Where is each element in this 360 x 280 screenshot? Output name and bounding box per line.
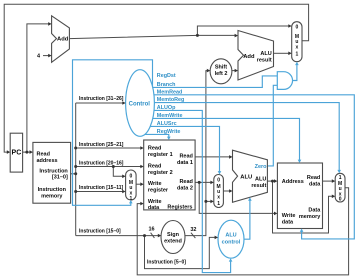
wire MemtoReg control signal	[140, 103, 339, 171]
instruction memory	[33, 142, 71, 203]
svg-text:Add: Add	[243, 54, 255, 60]
wire sign extend branch to ALUSrc mux input 1	[206, 200, 211, 202]
svg-text:Read: Read	[148, 145, 161, 151]
svg-text:x: x	[296, 44, 299, 50]
arrowheads black right	[7, 150, 10, 154]
svg-text:RegDst: RegDst	[157, 73, 176, 79]
junction dots	[25, 151, 28, 154]
svg-text:Data: Data	[308, 207, 321, 213]
svg-text:data: data	[309, 181, 321, 187]
PC	[10, 133, 22, 172]
svg-text:Read: Read	[37, 151, 50, 157]
svg-text:control: control	[222, 240, 241, 246]
svg-text:MemWrite: MemWrite	[157, 113, 183, 119]
wire MemRead control signal	[140, 95, 354, 239]
svg-text:extend: extend	[164, 238, 182, 244]
svg-text:1: 1	[130, 196, 133, 202]
svg-text:1: 1	[296, 52, 299, 58]
adder Add ALU result (branch)	[238, 31, 274, 81]
wire Instruction [25-21]	[76, 147, 141, 149]
wire Sign extend output up to shift left 2	[185, 71, 208, 236]
svg-text:result: result	[251, 183, 266, 189]
svg-text:ALU: ALU	[240, 174, 252, 180]
svg-text:Registers: Registers	[167, 204, 192, 210]
wire RegDst control signal	[73, 60, 153, 206]
wire branch adder result to PCSrc mux input 1	[274, 52, 290, 54]
svg-text:ALUSrc: ALUSrc	[157, 121, 177, 127]
svg-text:RegWrite: RegWrite	[157, 129, 181, 135]
svg-text:Read: Read	[307, 175, 320, 181]
svg-text:ALU: ALU	[225, 233, 236, 239]
registers	[144, 140, 195, 210]
svg-text:Add: Add	[57, 37, 69, 43]
svg-text:register: register	[148, 187, 169, 193]
svg-text:1: 1	[217, 201, 220, 207]
svg-text:Sign: Sign	[167, 232, 180, 238]
slash 32	[191, 233, 196, 238]
svg-text:Zero: Zero	[255, 164, 268, 170]
svg-text:data 2: data 2	[177, 186, 193, 192]
wire Data memory Read data to MemtoReg mux input 1	[323, 180, 333, 182]
data memory	[277, 163, 322, 229]
svg-text:memory: memory	[299, 214, 321, 220]
svg-text:Instruction: Instruction	[39, 168, 68, 174]
svg-text:Instruction [31–26]: Instruction [31–26]	[79, 96, 124, 102]
svg-text:data: data	[282, 220, 294, 226]
wire PC feedback from PCSrc mux around top to PC	[4, 4, 308, 152]
svg-text:register 1: register 1	[148, 152, 173, 158]
mux MemtoReg	[335, 173, 345, 202]
wire Branch control signal	[140, 76, 277, 88]
svg-text:Instruction: Instruction	[38, 187, 67, 193]
wire Read data 2 branch to Data memory Write data	[199, 182, 275, 213]
svg-text:register 2: register 2	[148, 170, 173, 176]
wire AND gate output to PCSrc mux select	[293, 64, 297, 80]
wire Shift left 2 output to branch adder	[232, 70, 236, 72]
svg-text:data 1: data 1	[177, 160, 193, 166]
oval Sign extend	[161, 221, 185, 254]
wire 4 into Add	[43, 55, 49, 57]
wire PC+4 to PCSrc mux input 0	[197, 26, 289, 35]
wire Instruction [31-26] to Control	[76, 102, 123, 104]
wire ALU result to Data memory Address	[267, 180, 274, 182]
instruction field labels	[79, 96, 186, 265]
svg-text:0: 0	[296, 24, 299, 30]
label mux PCSrc	[295, 24, 299, 57]
wire RegWrite control signal	[140, 134, 169, 137]
svg-text:Address: Address	[282, 179, 304, 185]
svg-text:Read: Read	[179, 154, 192, 160]
svg-text:32: 32	[190, 227, 196, 233]
svg-text:[31–0]: [31–0]	[52, 175, 68, 181]
wire ALUSrc mux output to ALU	[223, 190, 230, 192]
ALU U	[233, 150, 268, 202]
wire Instruction [5-0] to ALU control	[145, 236, 216, 269]
svg-text:16: 16	[148, 227, 154, 233]
svg-text:Instruction [5–0]: Instruction [5–0]	[147, 260, 186, 266]
label mux RegDst	[129, 174, 133, 202]
svg-text:Read: Read	[179, 179, 192, 185]
svg-text:address: address	[37, 158, 58, 164]
wire PC to instruction memory read address	[23, 151, 31, 153]
label mux MemtoReg	[338, 175, 342, 203]
wire ALUOp control signal	[140, 110, 231, 272]
mux ALUSrc	[214, 175, 224, 208]
wire Read data 2 to ALUSrc mux input 0	[195, 181, 211, 183]
svg-text:x: x	[217, 194, 220, 200]
svg-text:Instruction [20–16]: Instruction [20–16]	[79, 161, 124, 167]
wire branch to RegDst mux input 0	[113, 167, 123, 177]
slash 16	[151, 233, 155, 238]
mux PCSrc	[292, 22, 302, 62]
svg-text:Shift: Shift	[215, 64, 227, 70]
svg-text:MemtoReg: MemtoReg	[157, 97, 185, 103]
svg-text:MemRead: MemRead	[157, 89, 182, 95]
svg-text:left 2: left 2	[215, 71, 228, 77]
svg-text:ALU: ALU	[260, 51, 271, 57]
wire ALU control output to ALU	[244, 200, 250, 239]
svg-text:Instruction [25–21]: Instruction [25–21]	[79, 142, 124, 148]
wire Add output PC+4	[69, 35, 235, 38]
svg-text:data: data	[148, 205, 160, 211]
svg-text:Control: Control	[129, 101, 151, 107]
wire RegDst mux output to Write register	[136, 183, 141, 185]
svg-text:result: result	[257, 58, 272, 64]
svg-text:Instruction [15–0]: Instruction [15–0]	[79, 228, 121, 234]
svg-text:Branch: Branch	[157, 82, 176, 88]
adder Add (PC+4)	[52, 16, 70, 63]
svg-text:ALU: ALU	[255, 176, 266, 182]
wire PC up to Add	[27, 24, 49, 152]
wire instruction memory output	[71, 173, 76, 175]
wire Zero flag to AND gate	[267, 85, 277, 166]
wire write-back from MemtoReg mux to Registers Write data	[137, 188, 348, 275]
svg-text:PC: PC	[12, 150, 22, 157]
AND gate	[277, 72, 292, 90]
wire Read data 1 to ALU	[195, 156, 230, 158]
oval Control	[126, 70, 155, 137]
wire instruction trunk	[75, 103, 77, 236]
wire Instruction [15-0] to sign extend	[76, 235, 159, 237]
arrowheads blue	[129, 200, 133, 203]
svg-text:0: 0	[217, 178, 220, 184]
svg-text:Write: Write	[148, 181, 162, 187]
wire Instruction [20-16]	[76, 166, 141, 168]
svg-text:Instruction [15–11]: Instruction [15–11]	[79, 185, 124, 191]
label mux ALUSrc	[217, 178, 221, 207]
oval ALU control	[218, 220, 244, 258]
wire ALUSrc control signal	[140, 126, 220, 171]
svg-text:Read: Read	[148, 163, 161, 169]
wire MemWrite control signal	[140, 118, 300, 160]
svg-text:0: 0	[339, 197, 342, 203]
wire Instruction [15-11] to RegDst mux input 1	[76, 191, 123, 193]
oval Shift left 2	[210, 59, 232, 84]
mux RegDst	[126, 170, 137, 200]
svg-text:Write: Write	[282, 213, 296, 219]
svg-text:memory: memory	[41, 193, 63, 199]
wire ALU result branch to MemtoReg mux input 0	[273, 181, 333, 233]
svg-text:0: 0	[130, 174, 133, 180]
svg-text:ALUOp: ALUOp	[157, 105, 176, 111]
